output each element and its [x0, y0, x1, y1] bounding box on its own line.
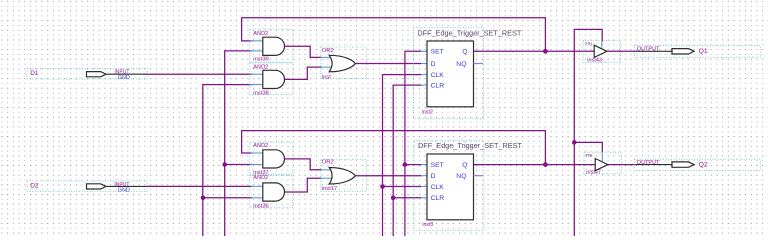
svg-text:TRI: TRI: [585, 41, 592, 46]
and-gate inst39: [250, 29, 293, 63]
svg-text:SET: SET: [431, 49, 444, 56]
dff inst2 DFF_Edge_Trigger_SET_REST: [414, 28, 522, 119]
svg-text:DFF_Edge_Trigger_SET_REST: DFF_Edge_Trigger_SET_REST: [418, 141, 522, 150]
svg-text:DFF_Edge_Trigger_SET_REST: DFF_Edge_Trigger_SET_REST: [417, 28, 521, 37]
svg-text:Q: Q: [462, 49, 467, 56]
wire inst2 Q to tri-buffer inst43: [474, 50, 595, 52]
stub inst2 NQ: [474, 63, 484, 65]
svg-text:CLR: CLR: [431, 195, 445, 202]
svg-text:inst2: inst2: [422, 109, 433, 115]
junction net B at inst36 branch: [201, 196, 206, 201]
svg-text:AND2: AND2: [253, 143, 268, 149]
or-gate inst17: [321, 160, 367, 192]
svg-text:D: D: [431, 61, 436, 68]
and-gate inst36: [250, 175, 293, 209]
svg-text:D: D: [431, 173, 436, 180]
dff inst3 DFF_Edge_Trigger_SET_REST: [414, 141, 522, 231]
svg-text:D2: D2: [30, 182, 39, 189]
svg-text:AND2: AND2: [253, 175, 268, 181]
wire Q1 feedback to inst39 input 1: [242, 18, 546, 52]
svg-text:inst43: inst43: [587, 58, 602, 64]
wire Q2 feedback to inst37 input 1: [242, 131, 546, 165]
wire inst38 output to or-gate inst input 2: [285, 67, 322, 79]
wire branch net B to inst36 input 2: [203, 197, 253, 199]
svg-text:GND: GND: [118, 188, 130, 194]
wire or-gate inst17 output to inst3 D: [355, 175, 421, 177]
and-gate inst37: [250, 142, 293, 176]
svg-text:inst47: inst47: [586, 170, 601, 176]
wire net B vertical (inst38/inst36 second inputs from bottom edge): [203, 85, 253, 236]
svg-text:inst3: inst3: [422, 222, 433, 228]
svg-text:GND: GND: [118, 75, 130, 81]
junction SET net at inst3: [403, 162, 408, 167]
input pin D1: [27, 69, 147, 82]
wire net A vertical (inst39/inst37 second inputs from bottom edge): [225, 51, 253, 236]
wire inst36 output to or-gate inst17 input 2: [285, 178, 322, 192]
svg-text:OR2: OR2: [322, 48, 334, 54]
wire enable net vertical: [574, 29, 602, 236]
svg-text:D1: D1: [30, 70, 39, 77]
svg-text:NQ: NQ: [456, 61, 466, 68]
stub inst3 NQ: [474, 175, 484, 177]
input pin D2: [27, 181, 147, 194]
wire branch net A to inst37 input 2: [225, 164, 253, 166]
svg-text:Q: Q: [462, 162, 467, 169]
wire D1 to inst38 input 1: [147, 73, 253, 75]
wire branch enable net to inst47: [574, 142, 602, 152]
svg-text:TRI: TRI: [585, 153, 592, 158]
junction CLR net at inst3: [391, 196, 396, 201]
svg-text:CLK: CLK: [431, 184, 445, 191]
svg-text:Q1: Q1: [699, 48, 708, 55]
svg-text:Q2: Q2: [699, 162, 708, 169]
svg-text:inst17: inst17: [322, 186, 337, 192]
wire SET net vertical: [405, 51, 422, 236]
tri-buffer inst43: [583, 41, 621, 64]
svg-text:OR2: OR2: [322, 160, 334, 166]
svg-text:inst38: inst38: [253, 90, 268, 96]
junction Q1 node: [543, 49, 548, 54]
svg-text:CLR: CLR: [431, 83, 445, 90]
wire inst43 output to output pin Q1: [607, 50, 637, 52]
wire CLR net vertical: [393, 85, 421, 236]
wire branch CLK net to inst3 CLK: [383, 186, 422, 188]
svg-text:inst: inst: [322, 75, 331, 81]
junction enable net: [572, 140, 577, 145]
wire branch CLR net to inst3 CLR: [393, 197, 421, 199]
wire branch SET net to inst3 SET: [405, 164, 422, 166]
svg-text:inst36: inst36: [253, 203, 268, 209]
output pin Q1: [635, 46, 761, 58]
wire or-gate inst output to inst2 D: [355, 63, 421, 65]
svg-text:SET: SET: [431, 162, 444, 169]
svg-text:CLK: CLK: [431, 72, 445, 79]
tri-buffer inst47: [584, 152, 622, 176]
svg-text:inst39: inst39: [253, 57, 268, 63]
output pin Q2: [635, 159, 761, 170]
junction Q2 node: [543, 162, 548, 167]
wire CLK net vertical: [383, 75, 422, 236]
wire inst3 Q to tri-buffer inst47: [474, 164, 596, 166]
junction CLK net at inst3: [380, 184, 385, 189]
and-gate inst38: [250, 63, 293, 97]
wire D2 to inst36 input 1: [147, 185, 253, 187]
svg-text:AND2: AND2: [253, 64, 268, 70]
or-gate inst: [321, 47, 367, 81]
svg-text:NQ: NQ: [456, 173, 466, 180]
wire inst47 output to output pin Q2: [608, 164, 637, 166]
svg-text:AND2: AND2: [253, 31, 268, 37]
wire inst37 output to or-gate inst17 input 1: [285, 159, 322, 170]
junction net A at inst37 branch: [222, 162, 227, 167]
wire inst39 output to or-gate inst input 1: [285, 46, 322, 57]
